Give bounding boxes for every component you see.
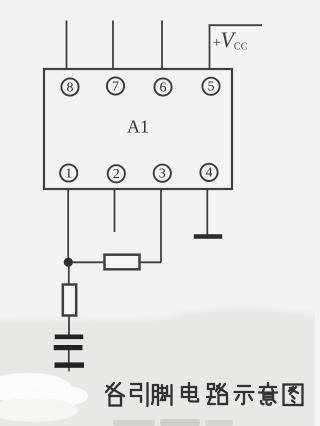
wire pin2 bottom stub xyxy=(114,189,116,232)
wire pin7 top stub xyxy=(112,21,114,70)
wire junction down to vertical resistor xyxy=(68,262,70,285)
wire pin8 top stub xyxy=(66,21,68,70)
pin numbers xyxy=(65,79,214,182)
wire junction to resistor R horizontal xyxy=(68,261,104,263)
wire pin1 bottom stub xyxy=(67,189,69,262)
ground bar below capacitor xyxy=(55,362,85,367)
pin 3 circle xyxy=(154,165,171,182)
resistor vertical xyxy=(63,285,76,316)
wire stub below ground bar xyxy=(68,368,70,372)
svg-text:7: 7 xyxy=(112,79,119,94)
caption char 路 xyxy=(207,384,227,404)
pin 8 circle xyxy=(61,78,78,95)
capacitor plate bottom xyxy=(54,345,83,350)
svg-text:1: 1 xyxy=(65,166,72,181)
pin 2 circle xyxy=(108,165,125,182)
pin circles xyxy=(60,77,220,182)
svg-text:2: 2 xyxy=(113,167,120,182)
caption char 各 xyxy=(106,383,124,406)
caption char 电 xyxy=(182,383,198,402)
pin 5 circle xyxy=(202,78,219,95)
caption char 示 xyxy=(235,386,254,404)
wire pin4 bottom stub xyxy=(206,189,208,235)
wire capacitor to ground xyxy=(68,350,70,363)
svg-text:A1: A1 xyxy=(127,117,149,137)
wire pin3 bottom stub xyxy=(160,189,162,263)
caption char 引 xyxy=(131,383,148,406)
pin 6 circle xyxy=(154,78,171,95)
capacitor plate top xyxy=(55,335,83,340)
pin 7 circle xyxy=(107,77,124,94)
IC box A1 xyxy=(44,69,232,189)
pin 1 circle xyxy=(60,164,77,181)
svg-text:3: 3 xyxy=(159,167,166,182)
wire pin6 top stub xyxy=(161,21,163,70)
junction node dot xyxy=(64,258,73,267)
wire resistor to pin3 xyxy=(139,261,161,263)
caption char 图 xyxy=(284,385,303,406)
resistor horizontal xyxy=(105,255,140,270)
ground bar under pin4 xyxy=(194,234,222,239)
pin 4 circle xyxy=(200,164,217,181)
caption char 脚 xyxy=(152,385,172,405)
caption: 各引脚电路示意图 (hand drawn strokes) xyxy=(106,383,303,406)
wire resistor to capacitor xyxy=(68,316,70,336)
wire pin5 to +Vcc xyxy=(209,25,211,70)
svg-text:5: 5 xyxy=(208,80,215,95)
svg-text:8: 8 xyxy=(67,80,74,95)
caption char 意 xyxy=(259,383,277,405)
svg-text:6: 6 xyxy=(160,80,167,95)
svg-text:4: 4 xyxy=(206,166,213,181)
+Vcc rail overline xyxy=(209,24,263,26)
